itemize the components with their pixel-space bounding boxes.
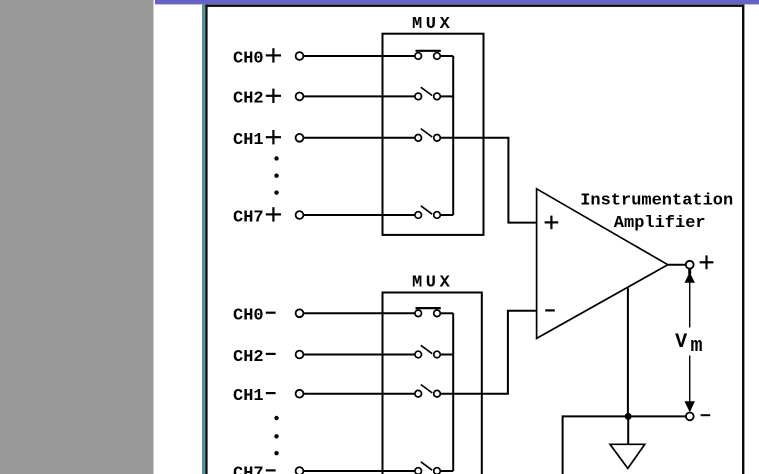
svg-text:CH1: CH1: [233, 387, 264, 406]
label Vm: [675, 331, 702, 358]
wire CH1+ input: [304, 137, 415, 139]
wire bus of U1: [452, 56, 454, 215]
svg-text:CH0: CH0: [233, 307, 264, 326]
wire left drop: [562, 415, 564, 474]
wire to ground: [627, 416, 629, 444]
svg-text:CH2: CH2: [233, 348, 264, 367]
svg-text:CH1: CH1: [233, 131, 264, 150]
minus input symbol of U3: [545, 309, 555, 311]
switch S1 (CH0+, closed): [415, 51, 441, 60]
switch S8 (CH7-, open): [415, 462, 440, 474]
wire S4 output: [440, 214, 453, 216]
wire S2 output: [440, 95, 453, 97]
svg-text:Amplifier: Amplifier: [614, 214, 706, 233]
mux U1 box: [383, 34, 484, 235]
svg-text:CH7: CH7: [233, 464, 264, 474]
svg-text:CH7: CH7: [233, 208, 264, 227]
wire from U3 lower edge down: [627, 287, 629, 416]
label Instrumentation Amplifier: [580, 192, 733, 234]
terminal CH2+: [296, 93, 304, 101]
svg-text:MUX: MUX: [412, 273, 453, 292]
node CH2- label: [233, 348, 276, 367]
node CH1+ label: [233, 130, 281, 150]
wire CH2+ input: [304, 95, 415, 97]
wire U1 output to amplifier + input: [440, 138, 536, 223]
label - at output terminal: [701, 414, 711, 416]
svg-text:CH2: CH2: [233, 90, 264, 109]
node CH7+ label: [233, 207, 281, 227]
node CH7- label: [233, 464, 276, 474]
wire S5 output: [440, 312, 453, 314]
wire S1 output: [440, 55, 453, 57]
wire U2 output to amplifier - input: [440, 311, 536, 394]
Vm arrow head top: [685, 272, 695, 283]
node CH0+ label: [233, 48, 281, 68]
terminal CH1+: [296, 134, 304, 142]
switch S2 (CH2+, open): [415, 87, 440, 100]
terminal CH0+: [296, 52, 304, 60]
mux U2 box: [383, 293, 482, 474]
svg-text:MUX: MUX: [412, 15, 453, 34]
plus input symbol of U3: [545, 216, 559, 230]
wire S8 output: [440, 470, 453, 472]
svg-text:Instrumentation: Instrumentation: [580, 192, 733, 211]
terminal output +: [686, 261, 694, 269]
ground: [610, 444, 645, 468]
switch S4 (CH7+, open): [415, 206, 440, 219]
wire CH0+ input: [304, 55, 415, 57]
svg-text:V: V: [675, 331, 687, 354]
wire CH7- input: [304, 470, 415, 472]
switch S5 (CH0-, closed): [415, 308, 441, 317]
terminal CH7-: [296, 467, 304, 474]
ellipsis dots (lower): [274, 416, 278, 456]
terminal output -: [686, 413, 694, 421]
node CH2+ label: [233, 89, 281, 109]
node CH1- label: [233, 387, 276, 406]
wire CH1- input: [304, 393, 415, 395]
Vm arrow head bottom: [685, 401, 695, 412]
Vm measure line lower: [689, 356, 691, 403]
terminal CH2-: [296, 351, 304, 359]
terminal CH7+: [296, 211, 304, 219]
junction node: [625, 413, 632, 420]
svg-text:m: m: [691, 335, 703, 358]
terminal CH0-: [296, 309, 304, 317]
node CH0- label: [233, 307, 276, 326]
wire U3 output stub: [668, 264, 686, 266]
label + at output terminal: [700, 255, 714, 269]
wire S6 output: [440, 354, 453, 356]
terminal CH1-: [296, 390, 304, 398]
wire bus of U2: [452, 313, 454, 471]
svg-text:CH0: CH0: [233, 49, 264, 68]
wire CH7+ input: [304, 214, 415, 216]
wire bottom horizontal: [563, 415, 686, 417]
wire CH0- input: [304, 312, 415, 314]
Vm measure line upper: [689, 283, 691, 328]
ellipsis dots (upper): [274, 156, 278, 195]
op-amp U3 instrumentation amplifier: [537, 189, 668, 339]
switch S7 (CH1-, open): [415, 385, 440, 398]
switch S3 (CH1+, open): [415, 129, 440, 142]
wire CH2- input: [304, 354, 415, 356]
switch S6 (CH2-, open): [415, 345, 440, 358]
